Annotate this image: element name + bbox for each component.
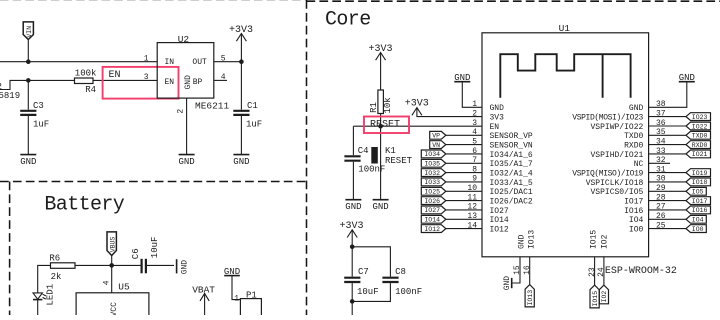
U1 pin 12 (IO27): [446, 203, 509, 216]
net tag IO33: [421, 178, 446, 186]
svg-text:16: 16: [523, 265, 532, 275]
highlight box around EN pin: [103, 67, 179, 99]
svg-text:IO14: IO14: [490, 216, 509, 225]
svg-text:IO26: IO26: [424, 198, 440, 205]
svg-text:P1: P1: [246, 290, 257, 300]
ground above U1 pin1: [454, 73, 482, 107]
wire VBUS to net: [111, 256, 113, 266]
svg-text:IO33: IO33: [424, 179, 440, 186]
svg-text:2: 2: [176, 109, 185, 114]
net tag IO5: [686, 187, 706, 195]
svg-text:R6: R6: [49, 253, 60, 263]
U1 pin 28 (IO17): [624, 193, 686, 206]
svg-text:IO4: IO4: [692, 217, 704, 224]
U1 pin 13 (IO14): [446, 212, 509, 225]
ground right of C6: [177, 259, 190, 274]
svg-text:IO22: IO22: [692, 123, 708, 130]
capacitor C3: [20, 80, 49, 154]
U1 pin 26 (IO4): [629, 212, 686, 225]
svg-text:IO2: IO2: [600, 234, 609, 249]
wire R4 to U2 pin3: [93, 79, 157, 81]
svg-text:29: 29: [656, 184, 666, 193]
U1 pin 33 (VSPIHD/IO21): [590, 147, 686, 160]
svg-text:1uF: 1uF: [246, 119, 262, 129]
svg-text:IO2: IO2: [601, 291, 608, 303]
net tag TXD0: [686, 131, 711, 139]
ground at C3: [20, 155, 36, 167]
section border: horizontal dashed divider between power and battery: [0, 181, 307, 183]
svg-text:C4: C4: [358, 146, 369, 156]
capacitor C6: [131, 237, 174, 274]
svg-text:2k: 2k: [51, 272, 62, 282]
node junction 3V3/C7/C8 top: [350, 245, 355, 250]
svg-text:IO25/DAC1: IO25/DAC1: [490, 188, 533, 197]
U1 pin 14 (IO12): [446, 221, 509, 234]
U1 pin 8 (IO32/A1_4): [446, 165, 533, 178]
svg-text:33: 33: [656, 147, 666, 156]
power flag VBAT: [192, 284, 215, 315]
svg-text:7: 7: [472, 156, 477, 165]
net tag IO27: [421, 206, 446, 214]
power symbol +3V3 at C7: [340, 221, 364, 247]
net tag IO25: [421, 187, 446, 195]
svg-text:23: 23: [588, 267, 597, 277]
wire from diode (clipped) to EN net: [0, 80, 75, 89]
svg-text:GND: GND: [345, 202, 361, 212]
U1 pin 34 (RXD0): [624, 137, 686, 150]
svg-text:IO15: IO15: [592, 291, 599, 307]
capacitor C7: [344, 247, 378, 302]
U1 pin 35 (TXD0): [624, 128, 686, 141]
node junction RESET: [378, 124, 383, 129]
svg-text:10: 10: [467, 184, 477, 193]
svg-text:IO13: IO13: [527, 230, 536, 249]
net tag IO34: [421, 150, 446, 158]
svg-text:GND: GND: [20, 157, 36, 167]
svg-text:C8: C8: [395, 267, 406, 277]
svg-text:TXD0: TXD0: [624, 132, 643, 141]
svg-text:24: 24: [597, 267, 606, 277]
svg-text:GND: GND: [233, 157, 249, 167]
svg-text:13: 13: [467, 212, 477, 221]
svg-text:27: 27: [656, 203, 666, 212]
U1 pin 2 (3V3): [472, 109, 504, 122]
svg-text:14: 14: [467, 221, 477, 230]
svg-text:OUT: OUT: [192, 58, 207, 67]
svg-text:VP: VP: [432, 133, 440, 140]
svg-text:Battery: Battery: [44, 194, 124, 217]
svg-text:37: 37: [656, 109, 666, 118]
svg-text:C7: C7: [358, 267, 369, 277]
net tag IO18: [686, 178, 711, 186]
svg-text:GND: GND: [490, 104, 505, 113]
power flag VIN: [23, 22, 33, 40]
IC U5 body: [76, 281, 149, 316]
svg-text:IO21: IO21: [692, 151, 708, 158]
net tag IO32: [421, 169, 446, 177]
svg-text:12: 12: [467, 203, 477, 212]
svg-text:IO18: IO18: [692, 179, 708, 186]
wire VBUS junction to U5 pin4: [111, 265, 113, 292]
U1 pin 29 (VSPICS0/IO5): [590, 184, 686, 197]
svg-text:U2: U2: [178, 34, 190, 45]
svg-text:VSPIWP/IO22: VSPIWP/IO22: [590, 123, 643, 132]
svg-text:RESET: RESET: [370, 119, 400, 130]
wire junction down (clipped): [351, 301, 353, 315]
svg-text:IO0: IO0: [692, 226, 704, 233]
svg-text:VSPIHD/IO21: VSPIHD/IO21: [590, 151, 643, 160]
svg-text:GND: GND: [181, 260, 190, 275]
svg-text:C1: C1: [247, 101, 258, 111]
ground at K1: [372, 200, 388, 212]
ground above P1: [224, 267, 241, 300]
svg-text:1: 1: [144, 54, 149, 63]
wire to C8 branch: [352, 247, 390, 277]
wire U2 pin5 to 3V3 node: [214, 61, 242, 63]
resistor R6: [49, 253, 75, 282]
svg-text:1uF: 1uF: [33, 119, 49, 129]
svg-text:IO4: IO4: [629, 216, 644, 225]
svg-text:GND: GND: [184, 75, 193, 90]
svg-text:SENSOR_VP: SENSOR_VP: [490, 132, 533, 141]
svg-text:31: 31: [656, 165, 666, 174]
power symbol +3V3 above R1: [369, 44, 393, 90]
section border: battery box left dashed edge: [9, 182, 11, 316]
U1 pin 24 (IO2): [597, 234, 609, 285]
svg-text:GND: GND: [629, 104, 644, 113]
power symbol +3V3 at U1 pin2: [405, 99, 482, 117]
svg-text:IO35/A1_7: IO35/A1_7: [490, 160, 533, 169]
diode D? value 5819 (clipped at edge): [0, 82, 20, 101]
svg-text:5819: 5819: [0, 91, 20, 101]
svg-text:R1: R1: [369, 102, 379, 113]
U1 pin 27 (IO16): [624, 203, 686, 216]
U1 pin 4 (SENSOR_VP): [446, 128, 533, 141]
svg-text:IO27: IO27: [424, 207, 440, 214]
wire R1 to RESET node and K1: [380, 114, 382, 200]
ground at C1: [233, 155, 249, 167]
net tag IO26: [421, 197, 446, 205]
svg-text:IO12: IO12: [490, 226, 509, 235]
net tag IO23: [686, 113, 711, 121]
svg-text:GND: GND: [517, 234, 526, 249]
svg-text:IO33/A1_5: IO33/A1_5: [490, 179, 533, 188]
svg-text:VBUS: VBUS: [110, 237, 117, 253]
connector P1 body: [240, 290, 261, 316]
svg-text:8: 8: [472, 165, 477, 174]
svg-text:30: 30: [656, 175, 666, 184]
svg-text:4: 4: [103, 280, 112, 285]
U1 pin 5 (SENSOR_VN): [446, 137, 533, 150]
svg-text:EN: EN: [490, 123, 500, 132]
svg-text:IO25: IO25: [424, 189, 440, 196]
svg-text:RXD0: RXD0: [692, 142, 708, 149]
svg-text:IO34/A1_6: IO34/A1_6: [490, 151, 533, 160]
svg-text:IO5: IO5: [692, 189, 704, 196]
U1 pin 6 (IO34/A1_6): [446, 147, 533, 160]
U1 pin 16 (IO13): [523, 230, 537, 285]
highlight box around RESET: [364, 117, 409, 134]
svg-text:VSPIQ(MISO)/IO19: VSPIQ(MISO)/IO19: [572, 170, 643, 179]
node junction at U2 output: [239, 59, 244, 64]
svg-text:34: 34: [656, 137, 666, 146]
svg-text:100nF: 100nF: [395, 287, 422, 297]
power flag VBUS: [107, 232, 117, 256]
svg-text:IO26/DAC2: IO26/DAC2: [490, 198, 533, 207]
svg-text:1: 1: [472, 100, 477, 109]
U1 pin 25 (IO0): [629, 221, 686, 234]
svg-text:GND: GND: [178, 157, 194, 167]
svg-text:100nF: 100nF: [358, 165, 385, 175]
wire VIN net to U2 pin1: [0, 61, 157, 63]
svg-text:28: 28: [656, 193, 666, 202]
svg-text:IN: IN: [165, 58, 175, 67]
section border: core box top dashed edge: [307, 0, 720, 2]
svg-text:ME6211: ME6211: [195, 101, 230, 112]
U1 pin 9 (IO33/A1_5): [446, 175, 533, 188]
wire R6 to C6: [75, 264, 141, 266]
svg-text:VSPID(MOSI)/IO23: VSPID(MOSI)/IO23: [572, 114, 643, 123]
node junction VBUS net: [109, 263, 114, 268]
net tag VP: [430, 131, 446, 139]
svg-text:Core: Core: [325, 9, 371, 32]
U1 pin 31 (VSPIQ(MISO)/IO19): [572, 165, 686, 178]
wire R6 left to LED1: [38, 265, 51, 292]
net tag IO16: [686, 206, 711, 214]
U1 pin 3 (EN): [472, 119, 499, 132]
U1 pin 15 (GND): [513, 234, 527, 283]
svg-text:VCC: VCC: [110, 302, 119, 315]
U1 pin 36 (VSPIWP/IO22): [590, 119, 686, 132]
svg-text:10k: 10k: [383, 97, 393, 113]
svg-text:IO0: IO0: [629, 226, 644, 235]
svg-text:10uF: 10uF: [150, 237, 160, 259]
svg-text:GND: GND: [372, 202, 388, 212]
svg-text:IO34: IO34: [424, 151, 440, 158]
svg-text:RESET: RESET: [385, 156, 413, 166]
svg-text:IO15: IO15: [589, 230, 598, 249]
svg-text:25: 25: [656, 221, 666, 230]
ground at U2 pin2: [178, 155, 194, 167]
svg-text:NC: NC: [634, 160, 644, 169]
svg-text:IO17: IO17: [624, 198, 643, 207]
svg-text:K1: K1: [385, 146, 396, 156]
svg-text:5: 5: [472, 137, 477, 146]
capacitor C8: [352, 267, 422, 301]
antenna meander inside U1: [500, 54, 630, 98]
ground at U1 pin15: [503, 276, 512, 291]
svg-text:4: 4: [472, 128, 477, 137]
LED LED1: [33, 284, 56, 315]
svg-text:IO32/A1_4: IO32/A1_4: [490, 170, 533, 179]
net tag IO21: [686, 150, 711, 158]
svg-text:IO35: IO35: [424, 161, 440, 168]
svg-text:IO16: IO16: [624, 207, 643, 216]
svg-text:32: 32: [656, 156, 666, 165]
section border: vertical dashed divider: [306, 0, 308, 315]
net tag IO15: [590, 285, 599, 308]
svg-text:ESP-WROOM-32: ESP-WROOM-32: [605, 266, 677, 277]
U1 pin 11 (IO26/DAC2): [446, 193, 533, 206]
svg-text:RXD0: RXD0: [624, 142, 643, 151]
svg-text:GND: GND: [503, 276, 512, 291]
svg-text:R4: R4: [85, 85, 96, 95]
ground at C4: [345, 200, 361, 212]
svg-text:26: 26: [656, 212, 666, 221]
svg-text:C3: C3: [33, 101, 44, 111]
svg-text:6: 6: [472, 147, 477, 156]
op-amp U2 regulator ME6211 body: [157, 34, 229, 112]
U1 pin 1 (GND): [472, 100, 504, 113]
capacitor C1: [233, 62, 262, 154]
svg-text:38: 38: [656, 100, 666, 109]
svg-text:2: 2: [472, 109, 477, 118]
svg-text:11: 11: [467, 193, 477, 202]
node junction C7/C8 bottom: [350, 299, 355, 304]
svg-text:U1: U1: [559, 23, 571, 34]
net tag IO0: [686, 225, 706, 233]
net tag IO2: [599, 285, 608, 304]
section border: power box top dashed edge (clipped): [0, 0, 307, 1]
U1 pin 38 (GND): [629, 100, 666, 113]
svg-text:2: 2: [0, 82, 2, 92]
net tag IO14: [421, 215, 446, 223]
node junction on EN wire: [26, 78, 31, 83]
svg-text:IO13: IO13: [527, 290, 534, 306]
resistor R1: [369, 90, 393, 114]
net tag VN: [430, 141, 446, 149]
svg-text:SENSOR_VN: SENSOR_VN: [490, 142, 533, 151]
svg-text:VIN: VIN: [26, 26, 33, 38]
svg-text:IO19: IO19: [692, 170, 708, 177]
U1 pin 23 (IO15): [588, 230, 599, 286]
svg-text:IO16: IO16: [692, 207, 708, 214]
U2 pin 4 stub: [214, 79, 227, 81]
U1 pin 30 (VSPICLK/IO18): [586, 175, 686, 188]
svg-text:IO12: IO12: [424, 226, 440, 233]
net tag RXD0: [686, 141, 711, 149]
U1 pin 7 (IO35/A1_7): [446, 156, 533, 169]
U1 pin 37 (VSPID(MOSI)/IO23): [572, 109, 686, 122]
net tag IO17: [686, 197, 711, 205]
svg-text:IO17: IO17: [692, 198, 708, 205]
capacitor C4: [344, 126, 385, 199]
net tag IO13: [525, 285, 534, 307]
switch K1 RESET: [371, 146, 412, 166]
U1 pin 10 (IO25/DAC1): [446, 184, 533, 197]
svg-text:15: 15: [513, 265, 522, 275]
svg-text:100k: 100k: [75, 68, 97, 78]
svg-text:36: 36: [656, 119, 666, 128]
svg-text:EN: EN: [109, 70, 121, 81]
svg-text:IO32: IO32: [424, 170, 440, 177]
power symbol +3V3 at U2 output: [229, 25, 253, 62]
svg-text:VSPICLK/IO18: VSPICLK/IO18: [586, 179, 644, 188]
net tag IO19: [686, 169, 711, 177]
svg-text:35: 35: [656, 128, 666, 137]
wire RESET net: [353, 125, 482, 127]
wire U2 pin2 to GND: [186, 98, 188, 154]
svg-text:9: 9: [472, 175, 477, 184]
svg-text:3: 3: [144, 73, 149, 82]
U1 pin 32 (NC): [634, 156, 670, 169]
svg-text:IO23: IO23: [692, 114, 708, 121]
svg-text:3V3: 3V3: [490, 114, 505, 123]
svg-text:+3V3: +3V3: [229, 25, 253, 36]
net tag IO4: [686, 215, 706, 223]
svg-text:IO14: IO14: [424, 217, 440, 224]
resistor R4: [75, 68, 97, 95]
net tag IO22: [686, 122, 711, 130]
net tag IO12: [421, 225, 446, 233]
svg-text:C6: C6: [131, 248, 141, 259]
svg-text:TXD0: TXD0: [692, 133, 708, 140]
svg-text:LED1: LED1: [46, 284, 56, 306]
svg-text:IO27: IO27: [490, 207, 509, 216]
svg-text:VSPICS0/IO5: VSPICS0/IO5: [590, 188, 643, 197]
node junction on VIN net: [26, 59, 31, 64]
svg-text:VN: VN: [432, 142, 440, 149]
IC U1 ESP-WROOM-32 body: [482, 23, 677, 277]
ground above U1 pin38: [649, 73, 695, 107]
svg-text:3: 3: [472, 119, 477, 128]
svg-text:10uF: 10uF: [357, 287, 379, 297]
svg-text:U5: U5: [118, 281, 130, 292]
svg-text:BP: BP: [193, 78, 203, 87]
svg-text:1: 1: [234, 294, 239, 303]
net tag IO35: [421, 159, 446, 167]
wire VIN to net: [27, 40, 29, 62]
svg-text:EN: EN: [165, 78, 175, 87]
